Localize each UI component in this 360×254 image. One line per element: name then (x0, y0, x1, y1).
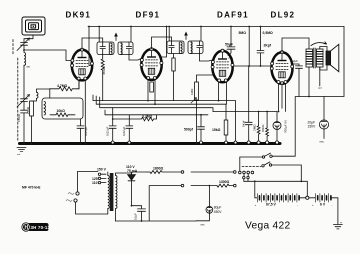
switch gang link (dashed) (242, 165, 261, 167)
connector contact a1 (181, 171, 184, 174)
wire mains to transformer (76, 172, 108, 215)
battery connector circle (306, 196, 309, 199)
wire DF91 anode to T2 (152, 37, 172, 49)
junction dot (88, 26, 90, 28)
wire C3 to bus (23, 113, 25, 144)
oscillator coupling box L4 (42, 98, 83, 119)
capacitor C3 150pF (17, 110, 28, 122)
svg-text:DAF91: DAF91 (217, 10, 249, 19)
tube U4 DL92 (270, 51, 293, 85)
junction dot pot-bus (196, 143, 198, 145)
svg-text:25kΩ: 25kΩ (26, 106, 30, 114)
svg-text:840Ω: 840Ω (261, 124, 265, 132)
junction dot C8-bus (80, 143, 82, 145)
junction dot frame (308, 96, 310, 98)
IF transformer T2 right section (188, 41, 203, 54)
svg-text:150 V: 150 V (97, 168, 107, 172)
svg-text:700μF 6V: 700μF 6V (284, 120, 288, 133)
wire battery B1 to connector (299, 197, 306, 199)
wire B+ drop to DK91 screen (89, 27, 92, 66)
svg-text:0,05μF: 0,05μF (84, 126, 88, 136)
plug contact risers (240, 157, 248, 176)
svg-text:DK91: DK91 (66, 10, 92, 19)
wire DL92 pins to cathode row (279, 84, 286, 112)
resistor R10 2MOhm (253, 111, 261, 144)
battery plug contact 2 (243, 171, 246, 174)
svg-text:0,5MΩ: 0,5MΩ (263, 31, 274, 35)
wire grid tap to DK91 (24, 50, 72, 61)
IF transformer T1 left section (97, 42, 114, 55)
svg-text:1300Ω: 1300Ω (219, 180, 230, 184)
speaker LS1 (326, 44, 339, 71)
svg-text:птф: птф (229, 57, 233, 60)
svg-text:3,3MΩ: 3,3MΩ (142, 114, 153, 118)
wire T1 secondary to B+ (130, 27, 132, 43)
resistor R7 at DF91 cathode (150, 82, 154, 92)
wire DL92 anode to output transformer (282, 38, 309, 53)
capacitor C9 0.02uF (106, 108, 117, 144)
power transformer T4 primary winding (108, 172, 110, 214)
capacitor C12 5nF (242, 66, 253, 144)
svg-text:ппа.: ппа. (320, 141, 325, 144)
wire battery B2 to ground (331, 198, 338, 224)
svg-text:+: + (255, 203, 257, 207)
svg-text:0,02μF: 0,02μF (122, 126, 126, 136)
wire L3 top to grid circuit (37, 89, 50, 92)
svg-text:3H 70-13: 3H 70-13 (31, 225, 51, 230)
svg-text:DL92: DL92 (271, 10, 296, 19)
wire T1 primary to B+ (98, 27, 100, 43)
resistor R14 5MOhm (AVC) (248, 27, 250, 67)
loop antenna L1 (frame aerial, concentric squares) (22, 17, 45, 35)
filament rail wire 3 (100, 97, 213, 112)
wire cap to grid line (23, 45, 25, 50)
capacitor C4 50uF at DAF91 (225, 26, 235, 60)
output transformer T3 primary (306, 49, 313, 67)
svg-text:MF 470 kHz: MF 470 kHz (22, 186, 41, 190)
ground symbol at left end of bus (17, 148, 26, 157)
wire R2 right up to DK91 (77, 80, 79, 89)
svg-text:110: 110 (92, 181, 98, 185)
svg-text:+: + (312, 203, 314, 207)
power transformer T4 core (110, 173, 114, 211)
ground bus (thick chassis line) (20, 142, 281, 145)
wire R1 to bus (31, 116, 33, 144)
tube U2 DF91 (140, 48, 163, 80)
svg-text:ппе.: ппе. (201, 224, 206, 227)
tuning gang link (dashed) (13, 40, 18, 143)
wire DAF91 plate to DL92 grid (234, 65, 273, 67)
wire DAF91 pins to rails (219, 82, 227, 104)
wire rectifier output (132, 171, 149, 173)
output transformer T3 core (314, 48, 316, 68)
ground return wire (116, 186, 197, 221)
svg-text:DF91: DF91 (136, 10, 161, 19)
svg-text:10kΩ: 10kΩ (57, 109, 66, 113)
electrolytic capacitor C15 80uF 450V (196, 185, 222, 227)
IF transformer T1 right section (118, 42, 133, 55)
IF transformer T1 tuning arrow (115, 34, 117, 41)
capacitor C6 2uF DL92 screen (292, 59, 303, 97)
oscillator coil L3 (37, 92, 39, 98)
svg-text:-: - (297, 203, 298, 207)
svg-text:10μF: 10μF (134, 213, 138, 220)
wire R4 to filament rail (102, 74, 104, 101)
wire battery feed (244, 179, 307, 196)
svg-text:2MΩ: 2MΩ (253, 124, 257, 131)
wire right frame B+ (295, 27, 344, 157)
svg-text:4,7MΩ: 4,7MΩ (57, 84, 68, 88)
svg-text:5MΩ: 5MΩ (239, 31, 247, 35)
svg-text:15kΩ: 15kΩ (212, 128, 221, 132)
svg-text:150pF: 150pF (17, 113, 21, 122)
resistor R1 25kOhm (26, 101, 34, 116)
wire DK91 pin to rail (78, 80, 80, 89)
wire coil down to oscillator cap (23, 65, 25, 98)
output transformer T3 secondary (317, 49, 324, 67)
resistor R3 10kOhm inside box (50, 109, 75, 117)
wire T3 secondary to voice coil (320, 47, 327, 71)
wire connector gap B (191, 185, 217, 187)
capacitor C5 2nF at DL92 grid with R 0.5MOhm (257, 26, 272, 67)
electrolytic capacitor C7 20uF 150V (308, 97, 329, 144)
wire T2 primary to B+ (168, 27, 170, 42)
wire DF91 pins to rails (148, 79, 155, 104)
rail drop to bus (wire 2) through R9 15kOhm (212, 104, 228, 144)
connector contact b2 (234, 184, 237, 187)
svg-text:ant: ant (27, 65, 31, 68)
wire top B+ bus (88, 26, 344, 28)
svg-text:1MΩ: 1MΩ (190, 88, 194, 95)
wire R2 left to osc box (49, 89, 51, 98)
wire T2 secondary to DAF91 grid (200, 54, 213, 62)
electrolytic capacitor C13 700uF 6V (273, 112, 288, 145)
power transformer T4 secondary winding (116, 173, 132, 221)
svg-text:0,02μF: 0,02μF (106, 126, 110, 136)
wire antenna to tuning (24, 35, 33, 42)
svg-text:Vega 422: Vega 422 (245, 221, 290, 232)
connector contact b1 (181, 184, 184, 187)
variable capacitor C2 (oscillator tuning) (17, 95, 30, 108)
svg-text:2Kpf: 2Kpf (264, 44, 272, 48)
svg-text:67,5 V: 67,5 V (266, 203, 277, 207)
variable capacitor C1 (antenna tuning) (17, 38, 30, 51)
antenna coil L2 (24, 50, 30, 68)
battery plug lower contact 6 (247, 176, 249, 178)
wire connector gap A (191, 171, 233, 173)
svg-text:450kΩ: 450kΩ (102, 65, 106, 75)
mains terminal 1 (68, 192, 79, 195)
switch S1b (262, 162, 302, 181)
rectifier D1 selenium 110V 75mA (126, 165, 138, 206)
svg-text:450V: 450V (214, 210, 223, 214)
tap 125V (92, 177, 106, 181)
connector contact a2 (234, 171, 237, 174)
capacitor C10 0.02uF (122, 115, 133, 144)
wire T1 secondary to DF91 grid (129, 55, 141, 61)
transformer adjust arrow (311, 42, 327, 46)
wire DK91 anode to T1 (82, 38, 103, 50)
wire cap C2 to C3 (23, 102, 25, 111)
wire T3 primary bottom to B+ frame (308, 67, 310, 97)
resistor R4 450kOhm below T1 (101, 55, 106, 76)
tube U3 DAF91 (211, 49, 234, 82)
battery B2 6V (309, 194, 338, 225)
node A (antenna grid tap) (23, 49, 25, 51)
battery B1 67.5V (255, 194, 306, 208)
svg-text:500pf: 500pf (184, 128, 194, 132)
battery plug contact 1 (239, 171, 242, 174)
svg-text:6 V: 6 V (320, 203, 326, 207)
tap 150V (97, 168, 107, 176)
svg-text:2μF: 2μF (293, 59, 298, 63)
capacitor C14 10uF (filter) (131, 205, 146, 221)
AGC rail wire 4 (105, 110, 208, 115)
filament rail wire 3b to DL92 cathode row (213, 111, 277, 113)
resistor R2 4.7MOhm (50, 84, 77, 91)
svg-text:Н: Н (25, 225, 29, 231)
capacitor C11 500pF (184, 114, 205, 144)
svg-text:125: 125 (92, 177, 98, 181)
wire T3 secondary center tap to ground (319, 67, 321, 86)
resistor R5 below T2 (172, 54, 175, 101)
IF transformer T2 tuning arrow (185, 33, 187, 40)
wire L3 bottom to R 25k (32, 98, 37, 101)
junction dot R1-bus (31, 143, 33, 145)
junction dot C3-bus (23, 143, 25, 145)
resistor R8 3.3MOhm (112, 114, 157, 120)
wire B+ drop left of T2 (161, 27, 167, 58)
manufacturer logo (21, 222, 50, 231)
rail drop to bus (wire 1) (235, 101, 237, 141)
mains terminal 2 (66, 199, 77, 202)
svg-text:5Kpf: 5Kpf (242, 120, 246, 127)
wire T2 secondary to B+ (200, 27, 202, 42)
capacitor C8 0.05uF (77, 119, 88, 144)
switch S1a (240, 153, 295, 158)
tap 110V (92, 181, 106, 185)
resistor R11 840Ohm (261, 111, 269, 144)
filament rail wire 2 (96, 96, 226, 104)
battery plug contact 4 (251, 171, 254, 174)
battery plug contact 3 (247, 171, 250, 174)
resistor R13 1300Ohm (217, 180, 233, 187)
battery plug lower contact 5 (243, 176, 245, 178)
svg-text:150V: 150V (308, 125, 317, 129)
svg-text:ant.: ant. (17, 153, 21, 156)
svg-text:-: - (332, 203, 333, 207)
resistor R12 1800Ohm (148, 167, 181, 174)
svg-text:1800Ω: 1800Ω (153, 167, 164, 171)
wire DK91 pin2 to bus (84, 80, 86, 144)
tube U1 DK91 (71, 48, 94, 80)
svg-text:50μF: 50μF (225, 43, 233, 47)
ground symbol battery (333, 222, 342, 229)
potentiometer R6 1MOhm (volume) (190, 75, 217, 144)
filament rail wire 1 (93, 95, 236, 101)
IF transformer T2 left section (167, 41, 184, 54)
